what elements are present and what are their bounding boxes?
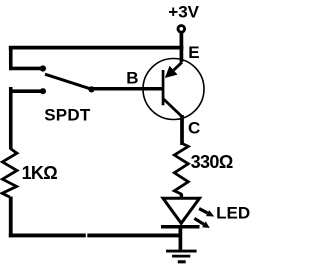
transistor emitter lead with PNP arrow — [174, 62, 182, 70]
wire LED cathode down to ground — [179, 227, 183, 250]
svg-text:B: B — [126, 68, 138, 87]
ground symbol — [166, 251, 197, 262]
wire bottom rail right segment to LED cathode node — [87, 233, 182, 237]
svg-text:E: E — [188, 43, 199, 62]
wire R2 to LED anode — [180, 194, 183, 199]
wire bottom rail left segment — [9, 233, 86, 237]
svg-text:+3V: +3V — [168, 3, 199, 22]
wire emitter vertical from +3V terminal — [180, 33, 184, 63]
wire top rail from switch to emitter node — [9, 46, 184, 50]
svg-text:SPDT: SPDT — [44, 105, 91, 124]
switch common pole dot — [88, 86, 94, 92]
LED light emission arrow 2 — [194, 218, 209, 228]
svg-text:LED: LED — [216, 204, 250, 223]
wire left bottom vertical below R1 — [9, 197, 13, 238]
wire left lower vertical with stub to switch throw 2 — [9, 87, 43, 150]
wire left upper vertical with stub to switch throw 1 — [9, 46, 43, 68]
transistor base bar — [162, 70, 165, 105]
svg-text:1KΩ: 1KΩ — [22, 163, 58, 183]
switch SPDT lever — [45, 74, 92, 89]
switch throw 2 dot — [40, 88, 46, 94]
LED D1 triangle — [163, 198, 200, 223]
power terminal circle +3V — [178, 26, 185, 33]
wire collector vertical to R2 — [180, 115, 184, 145]
svg-text:330Ω: 330Ω — [191, 152, 233, 172]
svg-text:C: C — [188, 118, 200, 137]
wire base wire from switch common to transistor base — [92, 87, 163, 91]
switch throw 1 dot — [40, 65, 46, 71]
resistor R2 330Ω zigzag — [174, 144, 188, 195]
LED cathode bar — [161, 225, 200, 229]
transistor collector lead — [163, 99, 181, 117]
resistor R1 1KΩ zigzag — [2, 149, 17, 197]
LED light emission arrow 1 — [199, 209, 214, 217]
transistor Q1 (PNP) body circle — [143, 59, 204, 120]
